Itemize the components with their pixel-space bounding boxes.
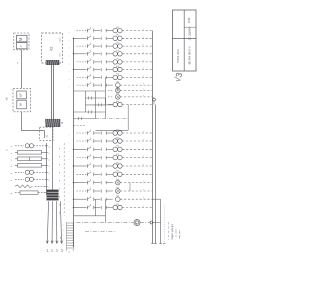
relay branch row L10 (73, 204, 153, 210)
right rail 2 (153, 97, 156, 244)
interlock contact grid (74, 77, 129, 125)
bus bottom label (69, 251, 71, 253)
svg-text:t°: t° (10, 165, 13, 167)
svg-text:подкл. для [н]: подкл. для [н] (171, 224, 174, 239)
lamp row U10 (crossed circle) (108, 93, 153, 99)
svg-text:КМ: КМ (116, 27, 119, 29)
svg-text:ʜ: ʜ (90, 204, 91, 206)
relay branch row U6 (contact + connector pair) (73, 66, 153, 72)
svg-text:ʜ: ʜ (90, 171, 91, 173)
svg-text:КМ: КМ (116, 171, 119, 173)
terminal column XT3 (ladder) (63, 222, 74, 251)
svg-text:КМ: КМ (116, 129, 119, 131)
svg-text:тп: тп (59, 180, 61, 182)
junction box X1 (40, 127, 54, 140)
right rail 3 (153, 199, 161, 243)
svg-text:QF: QF (19, 93, 23, 97)
svg-text:Ш: Ш (61, 122, 64, 124)
svg-text:вар. доп.: вар. доп. (179, 229, 181, 238)
svg-text:тп: тп (59, 188, 61, 190)
relay branch row U5 (contact + connector pair) (77, 58, 153, 64)
svg-text:5.001.30-9: 5.001.30-9 (176, 49, 180, 63)
svg-text:1/98: 1/98 (187, 17, 191, 23)
relay branch row L2 (77, 137, 153, 143)
svg-text:ʜ: ʜ (90, 154, 91, 156)
svg-text:К2: К2 (50, 46, 54, 50)
relay branch row L6 (77, 171, 153, 177)
right rail 1 (152, 31, 154, 244)
aux dashed bus with wire labels (59, 37, 64, 239)
svg-text:КМ: КМ (116, 87, 119, 89)
wire number labels along bus (69, 32, 70, 211)
contactor K2 (dashed enclosure) (42, 33, 63, 63)
main bus N1 (73, 38, 75, 247)
svg-text:КМ: КМ (116, 187, 119, 189)
svg-text:КМ: КМ (116, 154, 119, 156)
terminal block XT2 (hatched) (46, 119, 65, 127)
motor M1 (dashed enclosure with M/= boxes) (14, 33, 29, 50)
svg-text:КМ: КМ (116, 146, 119, 148)
svg-text:тп: тп (59, 204, 61, 206)
rail bottom terminals (151, 243, 165, 245)
svg-text:ʜ: ʜ (90, 66, 91, 68)
margin label 2 (6, 149, 9, 151)
relay branch row U4 (contact + connector pair) (73, 50, 153, 56)
svg-text:M: M (18, 37, 23, 41)
svg-text:≡Б: ≡Б (5, 97, 9, 101)
svg-text:ʜ: ʜ (90, 74, 91, 76)
svg-text:КМ: КМ (116, 50, 119, 52)
wire from M1 down (17, 50, 22, 89)
svg-text:КМ: КМ (116, 93, 119, 95)
svg-text:сх. альт.: сх. альт. (176, 228, 178, 237)
relay branch row U7 (contact + connector pair) (77, 74, 153, 80)
svg-text:ʜ: ʜ (90, 43, 91, 45)
relay branch row U8 (contact + connector pair) (77, 81, 153, 90)
relay branch row U11 with elbow return (96, 101, 153, 131)
svg-text:ВБ 964 МБ Е-0: ВБ 964 МБ Е-0 (188, 46, 192, 64)
svg-text:ʜ: ʜ (90, 137, 91, 139)
svg-text:тп: тп (59, 156, 61, 158)
handwritten revision mark V3 (172, 71, 184, 83)
left device ladder (heaters/lamps rows) (10, 144, 51, 195)
relay branch row U3 (contact + connector pair) (77, 42, 153, 48)
svg-text:тп: тп (59, 164, 61, 166)
relay branch row L1 (77, 129, 153, 135)
svg-text:ʜ: ʜ (90, 162, 91, 164)
relay branch row L4 (77, 154, 153, 160)
svg-text:ДС-ЭД(964): ДС-ЭД(964) (189, 27, 192, 41)
svg-text:ʜ: ʜ (90, 146, 91, 148)
svg-text:ʜ: ʜ (90, 187, 91, 189)
relay branch row L7 (73, 179, 153, 185)
svg-text:тп: тп (59, 172, 61, 174)
pump motor branch (dash-dot) (77, 220, 161, 226)
transformer secondary lines with arrows (46, 201, 63, 252)
svg-text:КМ: КМ (116, 162, 119, 164)
svg-text:КМ: КМ (116, 101, 119, 103)
lamp row U9 (crossed circle) (108, 87, 153, 93)
svg-text:ʜ: ʜ (90, 58, 91, 60)
svg-text:ʜ: ʜ (90, 50, 91, 52)
breaker QF (dashed enclosure) (13, 88, 31, 112)
svg-text:КМ: КМ (116, 66, 119, 68)
relay branch row U1 (contact + connector pair) (77, 27, 153, 33)
svg-text:КМ: КМ (116, 137, 119, 139)
svg-text:тп: тп (59, 148, 61, 150)
svg-text:t°: t° (10, 159, 13, 161)
svg-text:ʜ: ʜ (90, 35, 91, 37)
svg-text:КМ: КМ (116, 81, 119, 83)
svg-text:ВА: ВА (19, 103, 23, 107)
svg-text:ʜ: ʜ (90, 82, 91, 84)
svg-text:тп: тп (59, 196, 61, 198)
terminal strip XT1 (hatched) (46, 60, 59, 64)
aux row (85, 231, 115, 233)
title block (173, 10, 197, 71)
transformer T1 windings (dark block) (47, 190, 59, 200)
wire XT2 to transformer (52, 127, 54, 190)
svg-text:ʜ: ʜ (90, 179, 91, 181)
cable from K2 to XT2 (double line) (52, 65, 54, 120)
svg-text:ʜ: ʜ (90, 129, 91, 131)
svg-text:КМ: КМ (116, 42, 119, 44)
relay branch row L8 (77, 183, 153, 194)
annotation note (rotated) (171, 224, 181, 239)
svg-text:КМ: КМ (116, 74, 119, 76)
relay branch row L3 (73, 146, 153, 152)
left ladder bus (45, 143, 48, 195)
svg-text:КМ: КМ (116, 196, 119, 198)
right rail dotted (163, 205, 165, 243)
svg-text:пров: пров (60, 37, 62, 43)
svg-text:≈: ≈ (19, 45, 23, 47)
svg-text:КМ: КМ (116, 179, 119, 181)
svg-text:тп: тп (59, 212, 61, 214)
svg-text:КМ: КМ (116, 35, 119, 37)
svg-text:ʜ: ʜ (90, 196, 91, 198)
wire from QF to junction box (22, 112, 45, 131)
margin label (5, 97, 9, 101)
svg-text:t°: t° (10, 152, 13, 154)
relay branch row L9 (73, 196, 153, 202)
relay branch row L5 (73, 162, 153, 168)
svg-text:ʜ: ʜ (90, 27, 91, 29)
svg-text:КМ: КМ (116, 58, 119, 60)
right rail dashed (168, 222, 170, 240)
relay branch row U2 (contact + connector pair) (73, 35, 153, 41)
svg-text:КМ: КМ (116, 204, 119, 206)
bottom interlock wires (74, 199, 106, 222)
